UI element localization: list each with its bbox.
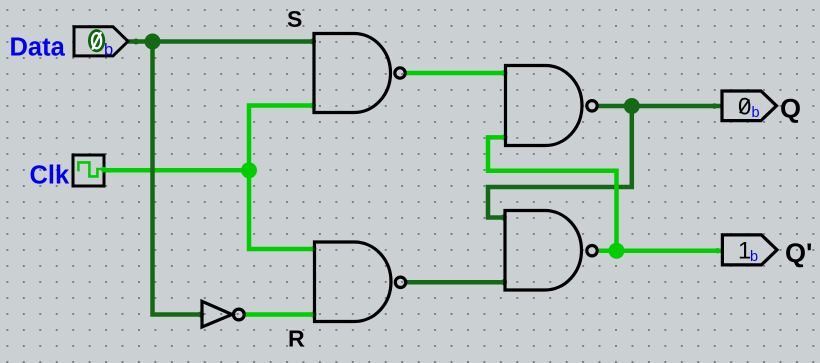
node: wire end nub at Q pin bbox=[712, 103, 718, 109]
wire: inverter U5 output to NAND U2 input B (1, bright green) bbox=[246, 312, 315, 317]
node: port dot U3 input B bbox=[501, 134, 507, 140]
node: port dot U2 input B bbox=[310, 311, 316, 317]
wire: NAND U3 output to output pin Q (net Q = 0, dark green) bbox=[599, 104, 723, 109]
NAND gate U4 (bottom right) bbox=[505, 211, 597, 291]
node: junction on Clk net bbox=[241, 162, 257, 178]
node: port dot U3 input A bbox=[501, 70, 507, 76]
node: port dot U2 input A bbox=[310, 246, 316, 252]
wire: Data pin to NAND U1 input A (net Data = 0, dark green) bbox=[128, 39, 314, 44]
wire: vertical from Data junction down and into inverter U5 input bbox=[153, 42, 203, 315]
output pin Q' bbox=[722, 235, 777, 265]
node: port dot U1 input B bbox=[310, 102, 316, 108]
svg-text:Q: Q bbox=[780, 94, 801, 124]
wire: NAND U1 output to NAND U3 input A (1, bright green) bbox=[407, 71, 506, 76]
svg-text:b: b bbox=[750, 249, 758, 265]
input pin Clk (clock) bbox=[73, 155, 107, 186]
node: port dot U4 input B bbox=[501, 279, 507, 285]
node: junction on Data net bbox=[145, 34, 161, 50]
wire: clock distribution U1 input B / vertical / U2 input A bbox=[249, 106, 315, 250]
NAND gate U3 (top right) bbox=[506, 66, 598, 146]
svg-text:Clk: Clk bbox=[30, 162, 71, 190]
svg-text:S: S bbox=[287, 6, 302, 32]
svg-text:R: R bbox=[288, 326, 305, 352]
wire: Q' feedback up, left, up into NAND U3 input B bbox=[488, 137, 617, 250]
svg-text:Data: Data bbox=[10, 34, 66, 62]
svg-text:b: b bbox=[104, 41, 113, 59]
node: port dot U1 input A bbox=[310, 38, 316, 44]
NAND gate U2 (bottom left) bbox=[315, 242, 406, 322]
node: junction on Q net bbox=[624, 98, 640, 114]
node: port dot U4 input A bbox=[501, 214, 507, 220]
output pin Q bbox=[722, 91, 777, 121]
wire: NAND U4 output to output pin Q' (net Q' = 1, bright green) bbox=[599, 248, 723, 253]
wire: Clk pin to clock junction (net Clk = 1, bright green) bbox=[104, 168, 249, 173]
NAND gate U1 (top left) bbox=[314, 34, 405, 113]
inverter U5 (NOT gate) bbox=[202, 301, 244, 327]
node: junction on Q' net bbox=[609, 243, 625, 259]
input pin Data bbox=[74, 27, 139, 59]
node: port dot U5 input bbox=[198, 311, 204, 317]
wire: Q feedback down, left, down into NAND U4 input A bbox=[488, 106, 632, 218]
wire: NAND U2 output to NAND U4 input B (0, dark green) bbox=[407, 280, 505, 285]
node: wire end nub at Q' pin bbox=[715, 248, 721, 254]
svg-text:Q': Q' bbox=[785, 238, 812, 268]
svg-text:b: b bbox=[752, 105, 760, 121]
